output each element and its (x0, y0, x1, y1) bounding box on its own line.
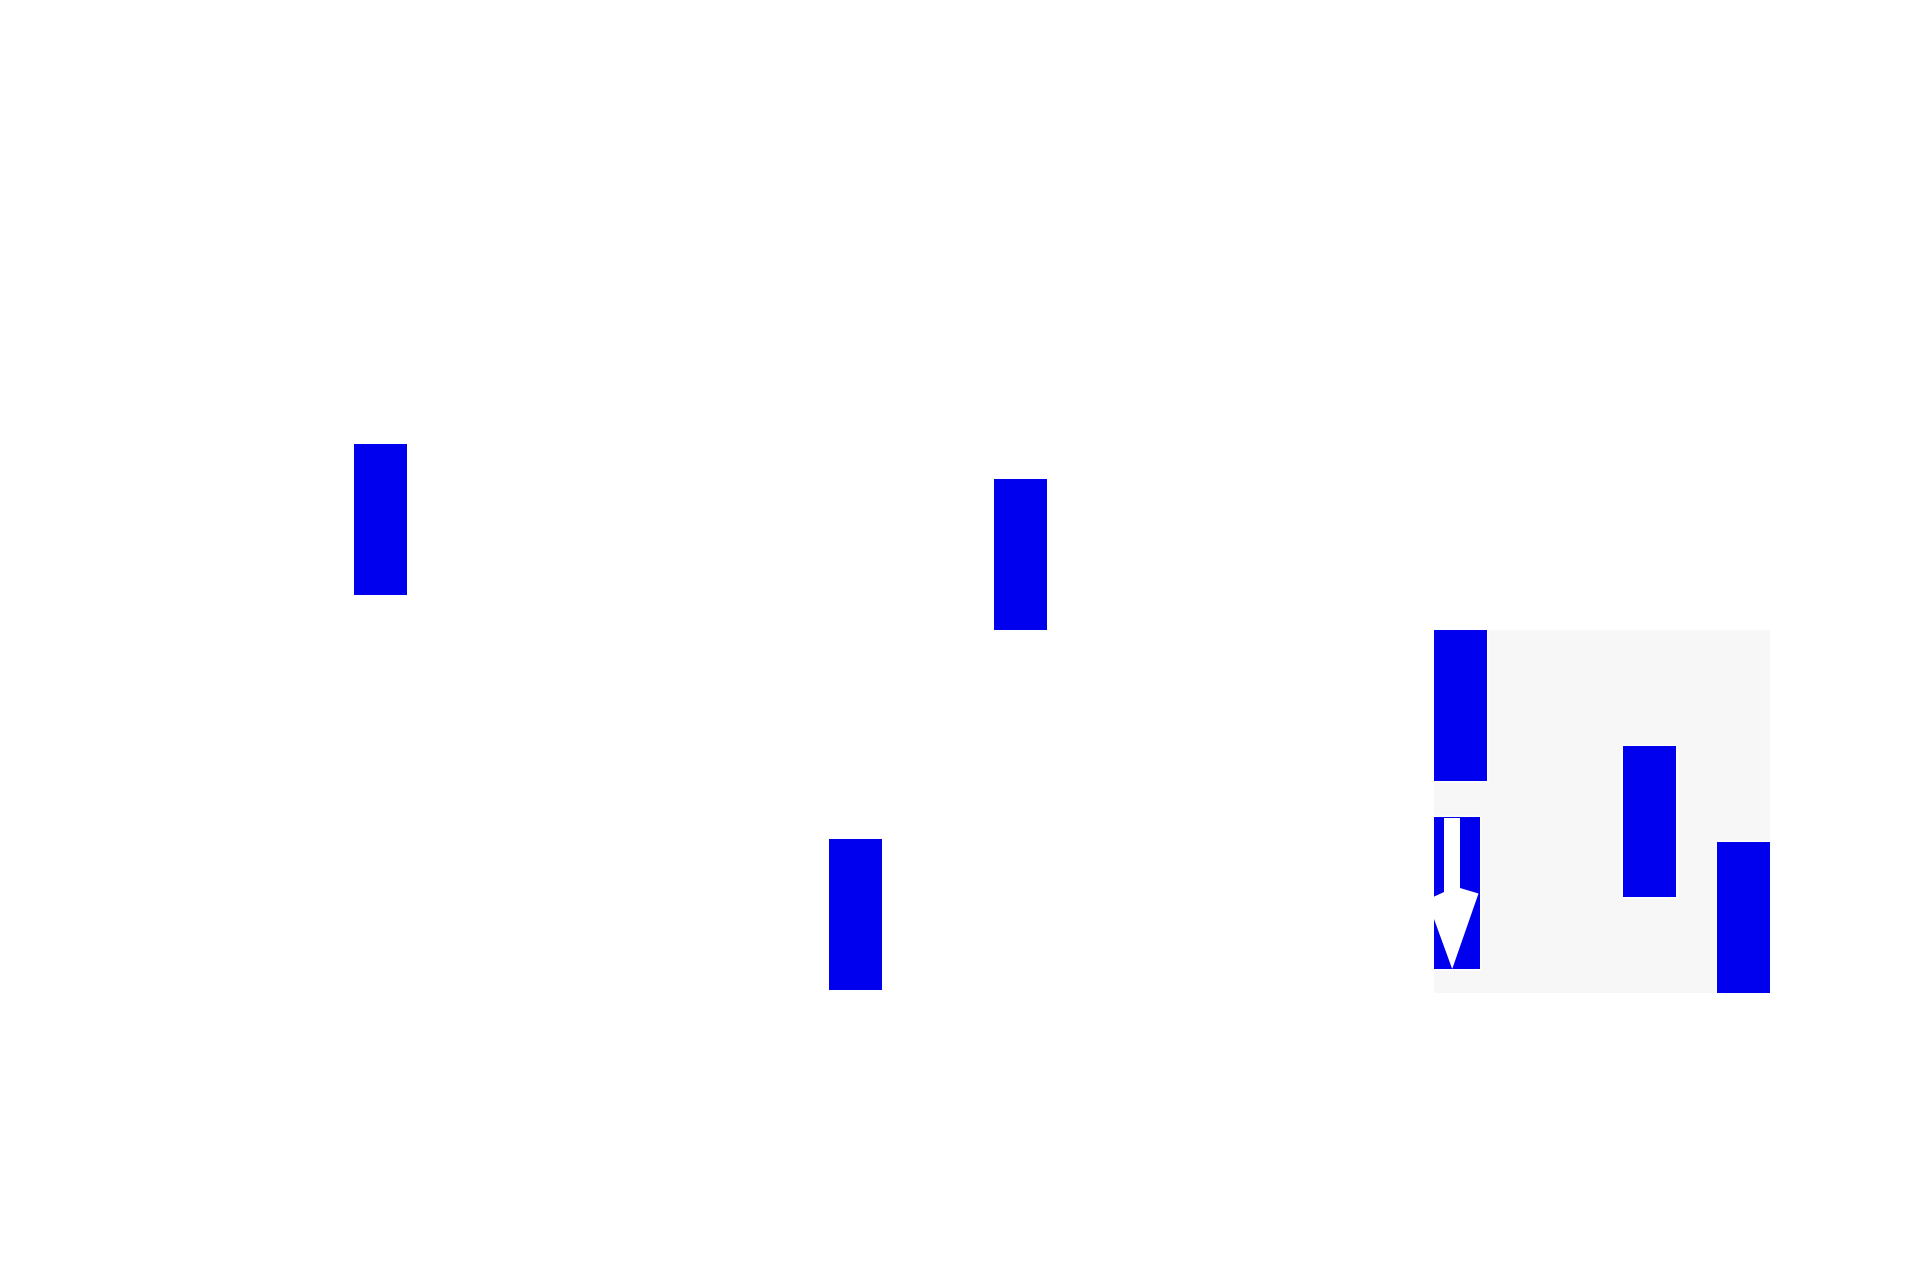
down arrow glyph (1427, 817, 1480, 969)
blue tile R2 (994, 479, 1047, 630)
blue tile R5 with white down-arrow, clipped at panel left edge (1427, 817, 1480, 969)
blue tile R6 (middle of panel) (1623, 746, 1676, 897)
gray drop-zone panel (1434, 630, 1770, 993)
blue tile R7 (bottom-right corner of panel) (1717, 842, 1770, 993)
blue tile R3 (829, 839, 882, 990)
blue tile R4 (top-left of panel) (1434, 630, 1487, 781)
blue tile R1 (354, 444, 407, 595)
